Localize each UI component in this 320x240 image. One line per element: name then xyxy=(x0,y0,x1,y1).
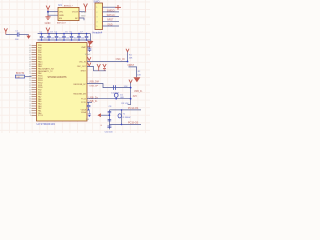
svg-text:C10 104: C10 104 xyxy=(105,131,114,133)
svg-text:2: 2 xyxy=(30,115,31,117)
wire header pin1 xyxy=(103,6,116,8)
wire crystal top xyxy=(109,109,141,111)
svg-text:SWDIO: SWDIO xyxy=(107,10,115,12)
wire header pin5 xyxy=(103,25,120,27)
svg-text:SWCLK: SWCLK xyxy=(107,15,116,17)
svg-text:PC14: PC14 xyxy=(81,99,86,101)
crystal Y1 xyxy=(118,109,122,125)
wire regulator pin2 right xyxy=(79,18,84,20)
svg-text:PC15-OS: PC15-OS xyxy=(128,122,139,125)
svg-text:AMS1117: AMS1117 xyxy=(57,22,67,25)
svg-text:PA12/USB_DP: PA12/USB_DP xyxy=(74,83,87,86)
svg-text:USB_DP: USB_DP xyxy=(89,86,98,88)
power flag VCC top-left of regulator xyxy=(46,6,50,12)
power flag above OSC_IN wire xyxy=(88,57,91,60)
wire header pin2 xyxy=(103,11,120,13)
IC U2 MCU body xyxy=(37,43,88,122)
svg-text:PA11/USB_DM: PA11/USB_DM xyxy=(73,93,86,96)
power flag on cap rail xyxy=(46,28,50,34)
power flag cross at pin1 xyxy=(115,5,121,10)
svg-text:32.768KHZ: 32.768KHZ xyxy=(122,117,130,119)
power flag left C1 xyxy=(4,28,7,34)
power flag 3V3 at regulator output xyxy=(84,4,88,12)
svg-text:3V3: 3V3 xyxy=(133,96,138,98)
IC U2 left pin stubs and names xyxy=(29,45,55,117)
svg-text:104: 104 xyxy=(74,38,77,40)
node junction cluster B xyxy=(130,98,132,100)
capacitor C1 xyxy=(17,32,19,36)
svg-text:SWD: SWD xyxy=(93,0,99,4)
svg-text:NRST: NRST xyxy=(128,64,135,67)
wire regulator VOUT xyxy=(79,11,86,13)
wire cap rail top xyxy=(38,33,91,35)
capacitor C8 plates xyxy=(108,112,112,113)
svg-text:1: 1 xyxy=(96,7,97,9)
svg-text:R3 1.5K: R3 1.5K xyxy=(121,103,129,105)
svg-text:104: 104 xyxy=(51,38,54,40)
svg-text:AMS1117: AMS1117 xyxy=(64,4,74,7)
svg-text:EN: EN xyxy=(59,18,62,20)
ground at C1 xyxy=(26,35,30,39)
op IC U1 regulator body xyxy=(58,7,79,20)
capacitor at VDDA xyxy=(88,110,91,115)
capacitor C7 xyxy=(77,32,84,41)
node junction at regulator input xyxy=(47,11,49,13)
svg-text:GND: GND xyxy=(59,15,64,17)
power flag at right of USB wire xyxy=(129,80,132,88)
wire NRST xyxy=(129,67,137,77)
capacitor C9 plates xyxy=(108,120,112,121)
svg-text:STM32F103C8T6: STM32F103C8T6 xyxy=(48,76,68,79)
wire VBAT stub xyxy=(87,46,90,48)
svg-text:GND: GND xyxy=(45,21,51,25)
wire OSC_OUT xyxy=(87,67,106,71)
node junction VDDA cap xyxy=(89,115,91,117)
power flag on gnd rail xyxy=(97,64,100,71)
capacitor C12 hanging xyxy=(87,102,91,110)
svg-text:OSC_IN: OSC_IN xyxy=(116,58,125,61)
svg-text:U1: U1 xyxy=(58,3,62,7)
power flag above OSC_OUT wire xyxy=(88,63,91,66)
connector P1 SWD header body xyxy=(95,3,103,30)
svg-text:+3.3V: +3.3V xyxy=(81,12,87,14)
ground GND1 xyxy=(45,17,50,20)
capacitor C3 xyxy=(47,32,54,41)
svg-text:104: 104 xyxy=(66,38,69,40)
svg-text:LED: LED xyxy=(120,97,124,99)
svg-text:3: 3 xyxy=(96,17,97,19)
wire pullup vertical xyxy=(127,51,129,62)
svg-text:BOOT0: BOOT0 xyxy=(16,72,25,75)
capacitor C10 bottom xyxy=(107,126,111,129)
wire regulator GND pin to vertical xyxy=(48,12,58,16)
wire C1 right xyxy=(19,34,29,36)
svg-text:Y1: Y1 xyxy=(123,113,125,115)
power flag left arrow xyxy=(97,113,109,117)
svg-text:104: 104 xyxy=(59,38,62,40)
wire rail end down xyxy=(90,34,92,41)
svg-text:U2 STM32F103: U2 STM32F103 xyxy=(37,122,56,126)
capacitor C10 xyxy=(85,33,89,41)
wire OSC_IN long xyxy=(87,61,128,63)
capacitor C4 xyxy=(54,32,61,41)
wire regulator VIN xyxy=(48,11,58,13)
capacitor at VBAT xyxy=(88,47,92,52)
node junction OSC_IN xyxy=(127,61,129,63)
wire stem to ground xyxy=(47,15,49,16)
wire USB_DM xyxy=(87,84,131,88)
svg-text:OSC_IN: OSC_IN xyxy=(79,61,87,63)
svg-text:OSC_OUT: OSC_OUT xyxy=(77,66,87,68)
wire cluster B bottom stub xyxy=(87,101,92,103)
wire header pin4 xyxy=(103,20,120,22)
svg-text:USB_D-: USB_D- xyxy=(134,91,143,93)
ground at crystal rail xyxy=(103,64,106,70)
capacitor C5 xyxy=(62,32,69,41)
wire crystal bottom xyxy=(109,123,141,125)
svg-text:104: 104 xyxy=(44,38,47,40)
wire cap rail bottom xyxy=(38,39,91,41)
svg-text:Header4: Header4 xyxy=(92,31,103,35)
power flag small at pullup top xyxy=(126,49,129,52)
wire VBAT left xyxy=(6,34,17,36)
wire VDDA stub xyxy=(87,109,89,111)
IC U2 right pin names xyxy=(73,46,86,114)
svg-text:PC14-OS: PC14-OS xyxy=(128,107,139,110)
node junction crystal rail xyxy=(109,114,111,116)
svg-text:VOUT: VOUT xyxy=(72,12,79,14)
svg-text:GND: GND xyxy=(81,16,86,18)
capacitor C11 inline xyxy=(114,85,116,90)
diode D1 xyxy=(114,93,118,99)
resistor R4 BOOT0 xyxy=(15,75,31,78)
svg-text:4: 4 xyxy=(96,21,97,23)
svg-text:NRST: NRST xyxy=(81,71,87,73)
wire header pin3 xyxy=(103,16,120,18)
svg-text:VSSA: VSSA xyxy=(81,111,87,114)
power flag at VBAT pin xyxy=(88,41,92,48)
wire cluster B top xyxy=(87,98,131,100)
ground at R2 xyxy=(133,77,140,82)
svg-text:PC15: PC15 xyxy=(81,102,86,104)
svg-text:GND: GND xyxy=(107,24,112,26)
svg-text:100nF: 100nF xyxy=(85,54,92,56)
svg-text:104: 104 xyxy=(81,38,84,40)
capacitor C6 xyxy=(69,32,76,41)
wire crystal left rail xyxy=(108,110,110,128)
svg-text:PC13: PC13 xyxy=(38,115,43,117)
svg-text:USB_DM: USB_DM xyxy=(89,80,99,83)
ground at cap rail xyxy=(87,41,93,49)
wire pullup USB vertical xyxy=(128,88,131,105)
svg-text:NC: NC xyxy=(75,18,79,20)
capacitor C2 xyxy=(39,32,46,41)
svg-text:VIN: VIN xyxy=(59,12,63,14)
svg-text:NRST: NRST xyxy=(107,20,114,22)
svg-text:5: 5 xyxy=(96,26,97,28)
svg-text:2: 2 xyxy=(96,12,97,14)
